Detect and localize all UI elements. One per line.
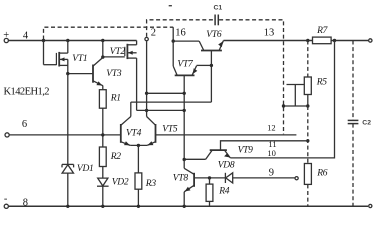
resistor R1 [99,90,106,109]
node junction VD1 bottom [66,205,69,208]
diode VD8 [224,173,226,183]
svg-text:-: - [4,193,8,204]
svg-text:R2: R2 [110,152,122,162]
node junction R7 right [333,39,336,42]
transistor VT2 [136,41,138,45]
node junction pin11 [306,139,309,142]
wire pin11 [221,141,308,150]
transistor VT7 [175,74,195,76]
resistor R5 [304,77,311,95]
wire V102 from top rail [102,41,104,57]
node junction VT6 base VT7 emitter [210,64,213,67]
svg-text:9: 9 [269,167,274,178]
wire dashed top line pin2 to C1 to right drop [147,20,214,37]
resistor R4 [209,178,211,184]
wire VT7 base lead / V184 [183,75,185,159]
svg-text:2: 2 [151,27,156,38]
resistor R2 [99,147,106,167]
svg-text:12: 12 [267,122,276,132]
node emitter junction [137,144,140,147]
zener VD1 [62,163,74,165]
svg-text:13: 13 [264,28,275,39]
node junction R5 bottom [306,104,309,107]
wire R5 tap [287,84,305,86]
wire line C [137,109,185,111]
node junction VT8 emitter bottom [183,205,186,208]
svg-text:10: 10 [267,148,276,158]
transistor VT1 [43,41,45,65]
svg-text:+: + [3,30,9,41]
node junction at x43 [42,39,45,42]
svg-text:VT8: VT8 [173,174,189,184]
node pin2 terminal [145,37,148,40]
node junction R7 left [306,39,309,42]
svg-text:R6: R6 [316,168,328,178]
svg-text:K142EH1,2: K142EH1,2 [4,87,50,98]
svg-text:VT6: VT6 [206,30,222,40]
svg-text:VT2: VT2 [110,47,126,57]
wire pin2 / VT5 collector column [146,41,148,116]
wire pin12 [156,134,297,136]
svg-text:VT9: VT9 [238,146,254,156]
capacitor C2 [352,41,354,121]
svg-text:C2: C2 [362,120,371,127]
capacitor C1 [214,15,216,26]
wire VT2 source riser [136,58,138,110]
svg-text:4: 4 [23,30,29,41]
svg-text:R7: R7 [316,26,329,36]
wire emitter bus VT4 VT5 [130,144,147,146]
svg-text:VT3: VT3 [106,69,122,79]
node junction at x102 [101,39,104,42]
node junction R1/R2 at pin6 wire [101,133,104,136]
transistor VT4 [120,124,122,143]
wire output rail [224,40,313,42]
node junction VT3 collector [101,55,104,58]
resistor R7 [313,37,332,44]
node junction at x67 [66,39,69,42]
svg-text:8: 8 [23,198,28,209]
wire pin10 [230,41,334,158]
wire VD1 column [67,74,69,165]
svg-text:R4: R4 [218,187,230,197]
node bottom right terminal [369,204,372,207]
node junction pin16 [172,39,175,42]
svg-text:6: 6 [22,119,27,130]
svg-text:VD8: VD8 [218,161,235,171]
node output terminal [369,39,372,42]
wire pin16 riser and wire to VT6 [172,27,174,41]
diode VD2 [98,178,108,186]
node junction line C mid [145,109,148,112]
node junction line C right [183,109,186,112]
node junction line A left [145,92,148,95]
wire bottom node R5 [284,105,308,107]
svg-text:VD2: VD2 [112,177,129,187]
svg-text:C1: C1 [214,5,223,12]
speck artifact [169,5,172,7]
node junction line A right [183,92,186,95]
svg-text:VT7: VT7 [177,59,194,69]
resistor R6 [304,164,311,185]
resistor R3 [135,173,142,189]
node pin4 terminal [4,38,8,42]
wire dashed jumper pin4 to pin16 [44,27,174,39]
wire line A [147,92,185,94]
wire pin6 [9,134,121,136]
svg-text:VT5: VT5 [162,124,178,134]
node junction R4 top [208,176,211,179]
node pin6 terminal [5,133,9,137]
svg-text:R1: R1 [110,94,121,104]
node junction VD2 bottom [101,205,104,208]
node pin8 terminal [4,204,8,208]
transistor VT9 [210,149,227,151]
wire bottom rail pin8 [8,205,368,207]
wire R3 lead [137,145,139,173]
svg-text:VT1: VT1 [72,54,87,64]
wire line B [131,101,212,103]
wire dashed divider column [307,106,309,164]
wire top rail pin4 [8,40,136,42]
svg-text:VD1: VD1 [77,164,94,174]
svg-text:16: 16 [175,27,186,38]
wire dashed R5 riser [307,41,309,78]
transistor VT5 [155,124,157,143]
svg-text:R5: R5 [316,78,328,88]
node junction VT8/VT9 collectors [183,158,186,161]
transistor VT6 [201,50,222,52]
svg-text:R3: R3 [145,179,157,189]
node junction dashed left [282,104,285,107]
wire VT9 collector [184,158,206,160]
node junction R3 bottom [137,205,140,208]
node pin9 terminal [295,177,298,180]
node junction VT1 source / VT3 base / VD1 [66,72,69,75]
svg-text:VT4: VT4 [126,128,142,138]
transistor VT3 [92,65,94,83]
transistor VT8 [183,160,185,169]
